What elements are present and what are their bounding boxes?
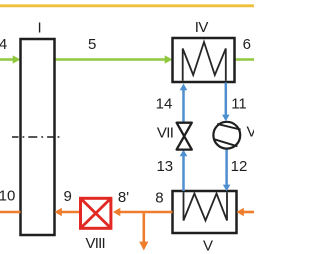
svg-text:IV: IV xyxy=(195,19,209,36)
column I xyxy=(12,39,60,235)
wire stream 8' (orange, cooler VIII feed with branch) xyxy=(113,208,173,216)
svg-text:8: 8 xyxy=(155,190,163,207)
heat exchanger V xyxy=(173,191,237,233)
svg-text:VIII: VIII xyxy=(86,235,105,252)
heat exchanger IV xyxy=(173,38,235,82)
svg-text:11: 11 xyxy=(231,96,247,113)
wire stream into heat exchanger V (orange, from right) xyxy=(237,208,255,216)
expansion valve VII xyxy=(177,123,192,150)
wire stream 11 (blue, heat exchanger IV to compressor VI) xyxy=(222,83,230,122)
wire stream 5 (green, column I to heat exchanger IV) xyxy=(55,55,173,63)
wire stream 13 (blue, heat exchanger V to valve VII) xyxy=(180,150,188,191)
svg-text:VI: VI xyxy=(247,124,255,141)
yellow top line xyxy=(0,4,254,7)
wire stream 9 (orange, cooler VIII to column I) xyxy=(55,208,80,216)
svg-text:9: 9 xyxy=(64,188,72,205)
wire stream 4 (green, into column I) xyxy=(0,55,21,63)
svg-text:8': 8' xyxy=(118,189,129,206)
svg-text:V: V xyxy=(203,237,213,254)
wire stream 10 (orange, out of column I left) xyxy=(0,211,21,214)
wire stream 14 (blue, valve VII to heat exchanger IV) xyxy=(180,84,188,123)
svg-text:14: 14 xyxy=(156,96,173,113)
wire stream 12 (blue, compressor VI to heat exchanger V) xyxy=(223,149,231,191)
svg-text:6: 6 xyxy=(243,36,251,53)
svg-text:4: 4 xyxy=(0,36,7,53)
compressor VI xyxy=(213,122,240,149)
svg-text:12: 12 xyxy=(231,158,248,175)
cooler VIII xyxy=(81,198,111,228)
svg-text:I: I xyxy=(38,19,42,36)
svg-text:10: 10 xyxy=(0,188,15,205)
svg-text:VII: VII xyxy=(157,125,174,142)
wire stream 6 (green, out of heat exchanger IV) xyxy=(234,58,254,61)
wire branch down arrow (orange) xyxy=(139,212,148,251)
svg-text:5: 5 xyxy=(88,36,96,53)
svg-text:13: 13 xyxy=(156,158,173,175)
